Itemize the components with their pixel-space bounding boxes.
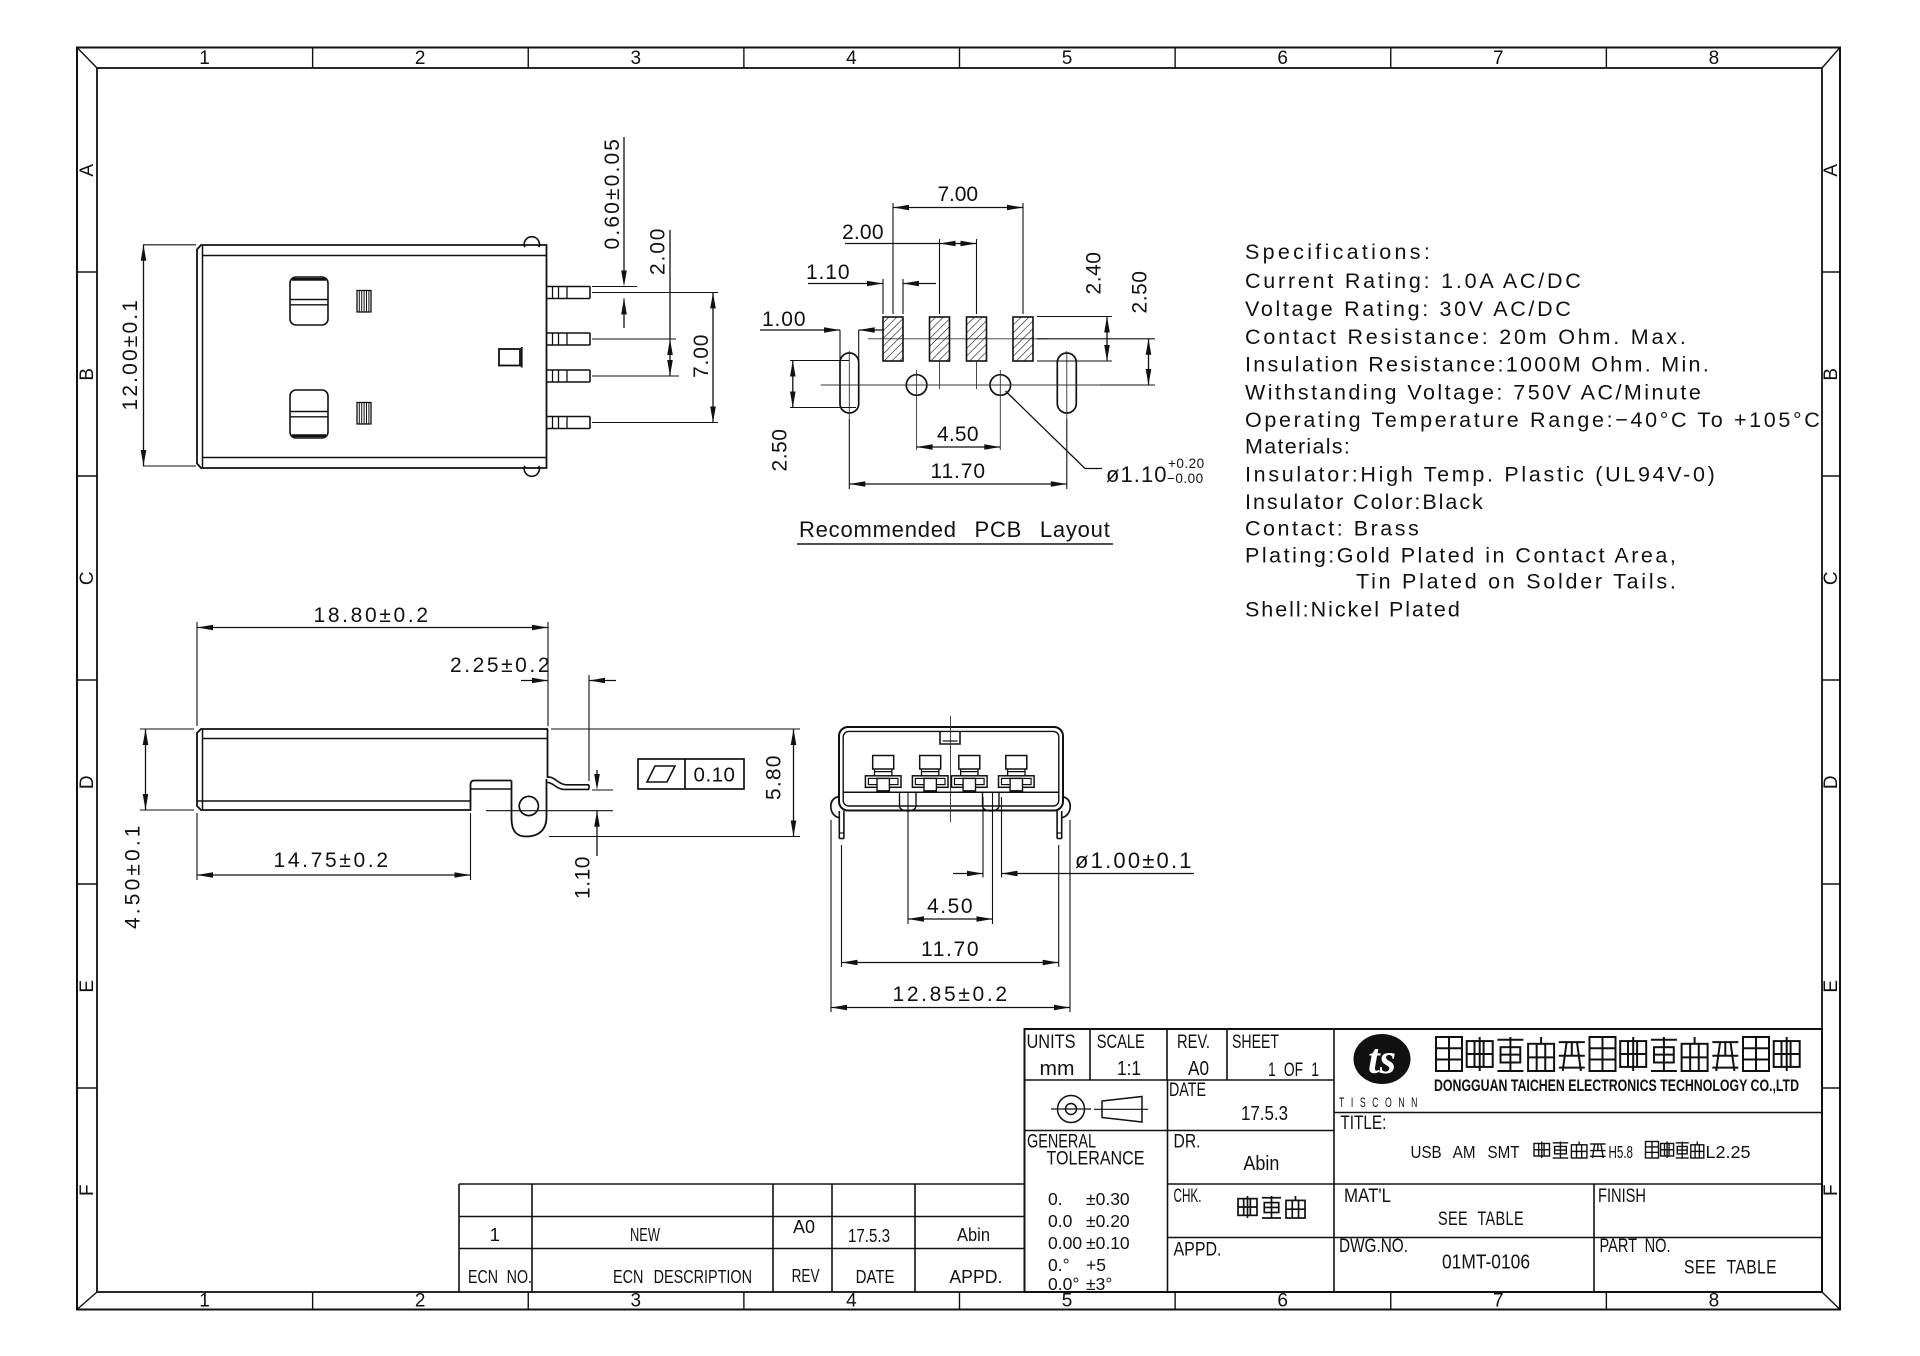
svg-text:1 OF 1: 1 OF 1 (1268, 1059, 1319, 1081)
dim 5.80 extension lines (551, 728, 800, 730)
leader line for hole diameter (1006, 391, 1103, 469)
svg-text:CHK.: CHK. (1174, 1185, 1202, 1207)
svg-text:0.0°: 0.0° (1048, 1274, 1079, 1294)
svg-text:TITLE:: TITLE: (1340, 1112, 1386, 1134)
top view inner bottom line (203, 457, 547, 459)
dim 1.10 pcb (808, 283, 883, 285)
front view channel 1 (899, 792, 901, 806)
svg-text:A: A (1821, 163, 1842, 176)
svg-text:E: E (77, 979, 98, 992)
svg-text:2: 2 (415, 48, 426, 69)
svg-text:1: 1 (199, 48, 210, 69)
dim 2.00 (pin pitch) (669, 230, 671, 376)
side view solder tail lower line (548, 782, 590, 789)
pcb pad3 centerline lower (976, 361, 978, 389)
front view pin 1 (873, 756, 894, 770)
dim 4.50 front extension lines (907, 793, 909, 924)
svg-text:±3°: ±3° (1086, 1274, 1112, 1294)
svg-text:SHEET: SHEET (1232, 1031, 1279, 1053)
company name chinese (1436, 1037, 1462, 1071)
svg-text:ø1.10: ø1.10 (1106, 462, 1167, 487)
pcb pad 2 (hatched) (930, 317, 950, 361)
chk signature hanzi (1238, 1199, 1257, 1216)
right zone ticks (1822, 271, 1840, 273)
top view knurl mark 1 (357, 291, 371, 313)
svg-text:2.50: 2.50 (769, 429, 792, 472)
svg-text:7.00: 7.00 (938, 183, 979, 206)
svg-text:MAT'L: MAT'L (1344, 1185, 1391, 1207)
svg-text:TISCONN: TISCONN (1339, 1094, 1424, 1110)
pcb hole right centerline vertical (999, 370, 1001, 450)
dim 2.00 pcb (845, 243, 977, 245)
side view step inner line (471, 788, 512, 790)
svg-text:14.75±0.2: 14.75±0.2 (274, 849, 389, 872)
front view right leg (1056, 811, 1058, 839)
pcb pad 3 (hatched) (967, 317, 987, 361)
svg-text:SEE TABLE: SEE TABLE (1684, 1257, 1777, 1279)
svg-text:TOLERANCE: TOLERANCE (1047, 1148, 1145, 1170)
svg-text:DATE: DATE (1169, 1079, 1206, 1101)
svg-text:8: 8 (1709, 1291, 1720, 1312)
svg-text:F: F (77, 1184, 98, 1196)
company logo mark (1354, 1034, 1411, 1084)
dim 7.00 (pin span) (712, 293, 714, 423)
svg-text:B: B (1821, 367, 1842, 380)
side view right cap edge (547, 729, 549, 778)
dim 4.50±0.1 (145, 729, 147, 810)
svg-text:E: E (1821, 979, 1842, 992)
top view small window (499, 349, 520, 366)
top view shell body outline (197, 245, 547, 468)
pcb slot left centerline (848, 351, 850, 419)
svg-text:6: 6 (1277, 1291, 1288, 1312)
top view latch hole 2 (290, 390, 328, 438)
svg-text:C: C (77, 571, 98, 585)
front view pin 4 (1006, 756, 1027, 770)
svg-text:REV.: REV. (1177, 1031, 1210, 1053)
pcb slot right centerline (1066, 351, 1068, 419)
svg-text:L2.25: L2.25 (1706, 1142, 1751, 1162)
svg-text:5.80: 5.80 (763, 755, 786, 800)
svg-text:2: 2 (415, 1291, 426, 1312)
svg-text:H5.8: H5.8 (1609, 1142, 1634, 1162)
svg-text:A: A (77, 163, 98, 176)
svg-text:PART NO.: PART NO. (1600, 1235, 1671, 1257)
side view solder tail tip (588, 785, 590, 790)
side view dimple circle (519, 796, 538, 815)
dim 4.50 front (908, 918, 993, 920)
projection symbol circles (1058, 1096, 1085, 1123)
svg-text:4.50: 4.50 (927, 895, 973, 918)
front view floor line (843, 791, 1059, 793)
dim 11.70 front extension lines (841, 845, 843, 967)
svg-text:mm: mm (1040, 1057, 1075, 1080)
flatness symbol parallelogram (647, 766, 675, 782)
svg-text:01MT-0106: 01MT-0106 (1442, 1252, 1530, 1274)
dim 0.60±0.05 extension line (592, 286, 637, 288)
svg-text:ECN NO.: ECN NO. (468, 1266, 532, 1287)
left zone ticks (77, 271, 97, 273)
pcb pad2 centerline lower (939, 361, 941, 389)
svg-text:8: 8 (1709, 48, 1720, 69)
svg-text:ts: ts (1368, 1037, 1396, 1083)
dim 0.60±0.05 (623, 137, 625, 271)
pcb hole circle right (990, 375, 1011, 396)
top view latch hole 1 (290, 277, 328, 325)
dim 2.25±0.2 (521, 680, 548, 682)
svg-text:Abin: Abin (957, 1224, 990, 1245)
projection symbol cone (1102, 1097, 1142, 1123)
top zone ticks (312, 48, 314, 69)
dim 12.85±0.2 (831, 1007, 1070, 1009)
front view centerline vertical (950, 716, 952, 822)
svg-text:7: 7 (1493, 48, 1504, 69)
svg-text:Recommended PCB Layout: Recommended PCB Layout (799, 517, 1111, 542)
svg-text:DATE: DATE (856, 1266, 895, 1287)
svg-text:Insulator:High Temp. Plastic (: Insulator:High Temp. Plastic (UL94V-0) (1245, 463, 1715, 487)
svg-text:Insulator Color:Black: Insulator Color:Black (1245, 490, 1483, 514)
side view inner top line (203, 738, 549, 740)
dim 12.00±0.1 extension lines (143, 244, 196, 246)
dim 1.00 pcb (760, 329, 840, 331)
dim 18.80±0.2 (197, 627, 548, 629)
front view right leg bulge (1062, 797, 1070, 818)
front view left leg (838, 811, 840, 839)
svg-text:Shell:Nickel Plated: Shell:Nickel Plated (1245, 598, 1460, 622)
svg-text:FINISH: FINISH (1598, 1185, 1646, 1207)
dim 7.00 pcb extension lines (892, 203, 894, 314)
dim 14.75±0.2 extension line (470, 813, 472, 880)
pcb slot hole left (840, 353, 859, 413)
flatness feature control frame (638, 759, 744, 789)
svg-text:0.°: 0.° (1048, 1255, 1070, 1275)
svg-text:17.5.3: 17.5.3 (1241, 1102, 1288, 1125)
svg-text:6: 6 (1277, 48, 1288, 69)
top view pin 2 (547, 332, 591, 334)
dim 2.50 left extension lines (790, 360, 849, 362)
dim 2.40 (1106, 317, 1108, 362)
dim 4.50±0.1 extension lines (140, 728, 194, 730)
svg-text:18.80±0.2: 18.80±0.2 (314, 604, 429, 627)
svg-text:UNITS: UNITS (1027, 1031, 1076, 1053)
svg-text:B: B (77, 367, 98, 380)
dim 2.40 extension lines (1037, 316, 1112, 318)
dim 2.00 extension lines (592, 338, 676, 340)
top view inner top line (203, 255, 547, 257)
top view knurl mark 2 (357, 403, 371, 425)
front view pin 3 (959, 756, 980, 770)
svg-text:Operating Temperature Range:−4: Operating Temperature Range:−40°C To +10… (1245, 408, 1820, 432)
svg-text:A0: A0 (793, 1216, 815, 1237)
dim 11.70 front (842, 962, 1059, 964)
dim 11.70 pcb extension lines (848, 419, 850, 489)
svg-text:12.85±0.2: 12.85±0.2 (893, 983, 1008, 1006)
svg-text:F: F (1821, 1184, 1842, 1196)
svg-text:4: 4 (846, 48, 857, 69)
dim 7.00 pcb (893, 207, 1023, 209)
svg-text:Materials:: Materials: (1245, 435, 1350, 459)
svg-text:2.40: 2.40 (1083, 252, 1106, 295)
dim 2.25±0.2 extension line (588, 675, 590, 781)
front view channel 2 (982, 792, 984, 806)
side view solder tail upper line (548, 777, 590, 785)
dim 2.50 right (1148, 339, 1150, 385)
dim 12.00±0.1 (143, 245, 145, 466)
svg-text:1.10: 1.10 (572, 856, 595, 899)
top view dimple bump bottom (524, 466, 539, 477)
top view pin 1 (547, 286, 591, 288)
front view pin 2 (920, 756, 941, 770)
svg-text:DWG.NO.: DWG.NO. (1339, 1235, 1408, 1257)
svg-text:0.0: 0.0 (1048, 1211, 1073, 1231)
dim 2.50 left (792, 361, 794, 408)
svg-text:SEE TABLE: SEE TABLE (1438, 1208, 1524, 1230)
svg-text:D: D (77, 775, 98, 789)
pcb hole left centerline vertical (916, 370, 918, 450)
svg-text:7.00: 7.00 (690, 334, 713, 378)
svg-text:D: D (1821, 775, 1842, 789)
svg-text:DR.: DR. (1174, 1131, 1201, 1153)
svg-text:±0.30: ±0.30 (1086, 1189, 1130, 1209)
pcb pad row centerline (868, 338, 1048, 340)
svg-text:2.00: 2.00 (842, 221, 884, 244)
svg-text:0.: 0. (1048, 1189, 1063, 1209)
svg-text:Withstanding Voltage: 750V AC/: Withstanding Voltage: 750V AC/Minute (1245, 381, 1701, 405)
side view left cap inner edge (202, 729, 204, 810)
svg-text:3: 3 (631, 1291, 642, 1312)
svg-text:1.10: 1.10 (806, 261, 850, 284)
dim 2.00 pcb extension lines (939, 239, 941, 314)
dim 1.10 side reference lines (592, 789, 613, 791)
svg-text:0.60±0.05: 0.60±0.05 (601, 139, 624, 250)
dim 1.10 pcb extension lines (882, 279, 884, 314)
svg-text:1.00: 1.00 (762, 308, 806, 331)
svg-text:APPD.: APPD. (1174, 1239, 1222, 1261)
svg-text:ECN DESCRIPTION: ECN DESCRIPTION (613, 1266, 752, 1287)
svg-text:A0: A0 (1188, 1057, 1209, 1080)
svg-text:+5: +5 (1086, 1255, 1106, 1275)
svg-text:USB AM SMT: USB AM SMT (1411, 1142, 1520, 1162)
svg-text:DONGGUAN TAICHEN ELECTRONICS T: DONGGUAN TAICHEN ELECTRONICS TECHNOLOGY … (1434, 1076, 1799, 1095)
side view inner bottom line (197, 800, 471, 802)
svg-text:3: 3 (631, 48, 642, 69)
top view pin 3 (547, 369, 591, 371)
svg-text:11.70: 11.70 (921, 938, 979, 961)
pcb slot hole right (1057, 353, 1076, 413)
svg-text:+0.20: +0.20 (1168, 456, 1205, 471)
dim 11.70 pcb (849, 483, 1067, 485)
dim ø1.00±0.1 (953, 873, 983, 875)
svg-text:0.10: 0.10 (694, 764, 736, 787)
svg-text:12.00±0.1: 12.00±0.1 (119, 300, 142, 411)
frame corner diagonals (77, 48, 97, 69)
svg-text:±0.10: ±0.10 (1086, 1233, 1130, 1253)
dim 18.80±0.2 extension lines (196, 622, 198, 726)
svg-text:C: C (1821, 571, 1842, 585)
svg-text:1:1: 1:1 (1117, 1057, 1141, 1080)
dim 2.50 right extension line (1037, 338, 1155, 340)
svg-text:REV: REV (792, 1265, 820, 1286)
svg-text:APPD.: APPD. (949, 1266, 1002, 1287)
svg-text:SCALE: SCALE (1097, 1031, 1145, 1053)
svg-text:1: 1 (199, 1291, 210, 1312)
front view left leg bulge (831, 797, 839, 818)
side view mounting foot (512, 779, 547, 837)
svg-text:4: 4 (846, 1291, 857, 1312)
svg-text:11.70: 11.70 (931, 460, 986, 483)
svg-text:2.00: 2.00 (647, 228, 670, 275)
svg-text:±0.20: ±0.20 (1086, 1211, 1130, 1231)
bottom zone ticks (312, 1292, 314, 1310)
front view shell inner outline (843, 731, 1059, 806)
dim ø1.00 extension lines (982, 797, 984, 878)
pcb pad 4 (hatched) (1013, 317, 1033, 361)
svg-text:4.50: 4.50 (937, 423, 979, 446)
svg-text:Abin: Abin (1243, 1152, 1279, 1175)
dim 1.10 side (596, 770, 598, 774)
svg-text:−0.00: −0.00 (1167, 471, 1204, 486)
side view shell body outline (197, 729, 548, 810)
svg-text:2.50: 2.50 (1129, 271, 1152, 314)
dim 7.00 extension lines (592, 292, 718, 294)
top view left cap inner edge (202, 245, 204, 468)
top view pin 4 (547, 416, 591, 418)
revision table borders (459, 1183, 1025, 1185)
top view dimple bump top (524, 237, 539, 248)
dim 1.00 extension lines (839, 330, 841, 364)
dim 4.50 pcb (917, 446, 1001, 448)
svg-text:17.5.3: 17.5.3 (848, 1225, 890, 1246)
front view center notch (940, 731, 960, 744)
svg-text:Specifications:: Specifications: (1245, 240, 1430, 264)
dim 14.75±0.2 (197, 874, 471, 876)
dim 5.80 (793, 729, 795, 837)
svg-text:5: 5 (1062, 48, 1073, 69)
svg-text:1: 1 (490, 1224, 501, 1245)
pcb pad 1 (hatched) (883, 317, 903, 361)
svg-text:ø1.00±0.1: ø1.00±0.1 (1075, 848, 1192, 873)
svg-text:Voltage Rating: 30V AC/DC: Voltage Rating: 30V AC/DC (1245, 297, 1571, 321)
title block grid lines (1025, 1079, 1335, 1081)
svg-text:0.00: 0.00 (1048, 1233, 1082, 1253)
pcb holes row centerline (821, 384, 1152, 386)
svg-text:7: 7 (1493, 1291, 1504, 1312)
svg-text:NEW: NEW (630, 1224, 660, 1245)
dim 12.85±0.2 extension lines (830, 820, 832, 1012)
pcb hole circle left (906, 375, 927, 396)
title block outer border (1025, 1029, 1823, 1292)
front view shell outer outline (839, 727, 1063, 811)
